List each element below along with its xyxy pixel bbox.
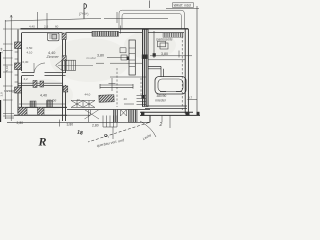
svg-text:3,80: 3,80 [67, 122, 74, 126]
svg-text:2: 2 [159, 122, 163, 128]
svg-text:40: 40 [77, 98, 81, 102]
svg-text:40: 40 [124, 97, 128, 101]
svg-text:5,10: 5,10 [5, 65, 9, 71]
svg-text:44,0: 44,0 [85, 93, 91, 97]
svg-text:4,40: 4,40 [29, 25, 35, 29]
svg-text:4,10: 4,10 [27, 50, 33, 54]
svg-text:2,80: 2,80 [17, 121, 24, 125]
svg-text:4,2: 4,2 [24, 77, 29, 81]
svg-text:Windf. mbd: Windf. mbd [174, 4, 191, 8]
svg-text:0,30: 0,30 [23, 60, 29, 64]
svg-text:3,9: 3,9 [0, 92, 4, 97]
svg-text:60: 60 [55, 25, 59, 29]
svg-text:(7+6+): (7+6+) [79, 12, 88, 16]
svg-text:0,50: 0,50 [27, 46, 33, 50]
svg-text:4,7: 4,7 [188, 96, 193, 100]
svg-text:2,80: 2,80 [92, 124, 99, 128]
svg-text:2,0: 2,0 [44, 25, 49, 29]
svg-text:sandig: sandig [4, 89, 14, 93]
svg-text:mieder: mieder [155, 99, 167, 103]
svg-text:O‚: O‚ [104, 133, 109, 138]
svg-text:R: R [38, 135, 47, 149]
svg-text:380/90: 380/90 [157, 94, 167, 98]
